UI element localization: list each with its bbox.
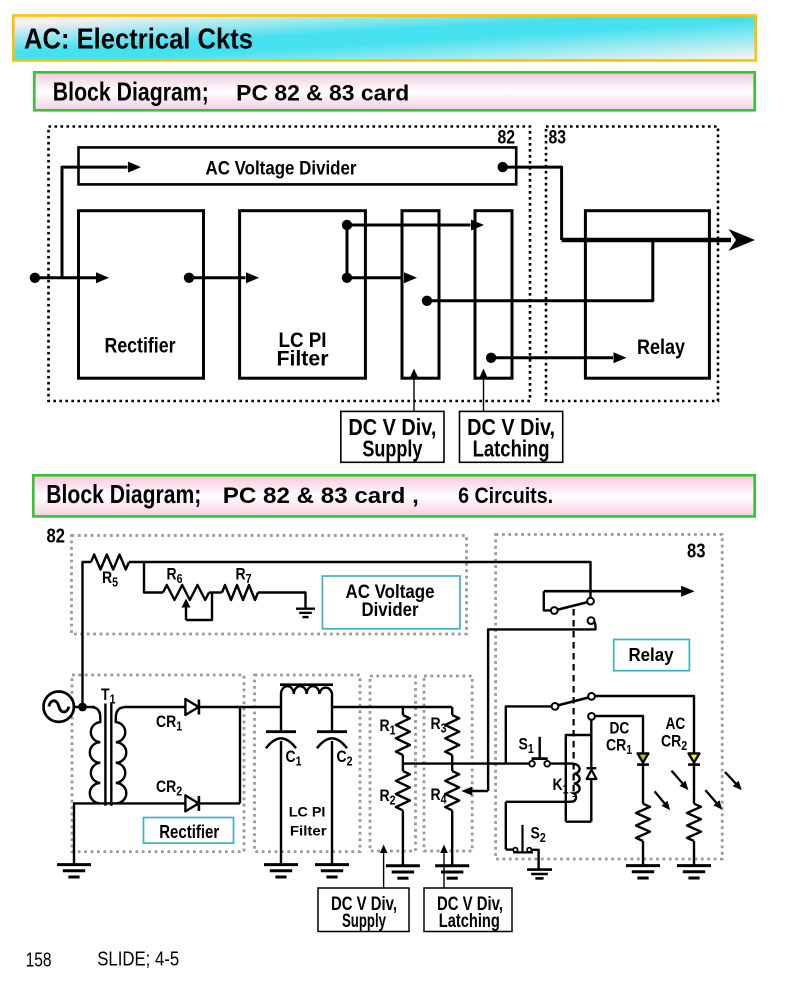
label box: DC V Div, Supply (schematic) (318, 888, 409, 932)
svg-text:Relay: Relay (637, 336, 685, 359)
svg-text:Filter: Filter (277, 348, 329, 371)
ground (S2) (527, 870, 552, 879)
ground (CR1) (626, 866, 660, 878)
dashed enclosure card 82 (49, 127, 531, 402)
capacitor C1 (280, 707, 282, 730)
wire: filter output to supply divider (347, 276, 404, 279)
wire: latching divider to Relay (486, 353, 496, 363)
resistor R3 (451, 707, 453, 715)
wire: input up to AC Voltage Divider (62, 167, 128, 278)
label 83 (549, 126, 567, 148)
wire: filter output to latching divider (347, 224, 471, 227)
callout arrow: DC V Div Supply (413, 376, 415, 411)
block: LC PI Filter (240, 211, 366, 379)
dashed box: LC PI filter section (255, 675, 361, 852)
label 83 (schematic) (687, 539, 705, 562)
svg-text:Supply: Supply (342, 911, 386, 932)
wire: latch common to S1 node (506, 706, 552, 763)
svg-text:PC 82 & 83 card ,: PC 82 & 83 card , (223, 483, 419, 508)
LED AC CR2 (689, 753, 700, 762)
block: DC V divider latching (narrow) (475, 211, 512, 379)
subtitle bar: Block Diagram; PC 82 &amp; 83 card, 6 Circuits (33, 475, 754, 516)
svg-text:PC 82 & 83 card: PC 82 & 83 card (236, 81, 409, 106)
callout arrow: DC V Div Latching (schematic) (443, 852, 445, 888)
callout box: Rectifier (144, 818, 234, 844)
transformer T1 primary (90, 707, 101, 803)
transformer core (104, 704, 106, 806)
wire: divider junction rail to S1 (403, 762, 529, 764)
resistor R4 (pot) (451, 764, 453, 771)
resistor (CR2 branch) (693, 765, 695, 804)
wire: latch contact to AC CR2 rail (595, 696, 694, 753)
svg-text:Filter: Filter (290, 822, 327, 838)
svg-text:83: 83 (549, 126, 567, 148)
wire: S1 to K1 coil (550, 762, 573, 764)
wire: transformer bottom rail (74, 803, 240, 864)
svg-text:158: 158 (26, 949, 52, 972)
label 82 (498, 126, 516, 148)
wire: latch contact to DC CR1 rail (595, 716, 643, 753)
label 82 (schematic) (47, 524, 65, 547)
flyback diode (K1) (590, 720, 592, 767)
dashed box: DC V Div latching section (424, 676, 472, 851)
callout arrow: DC V Div Supply (schematic) (383, 852, 385, 888)
svg-text:Latching: Latching (473, 436, 550, 462)
block: AC Voltage Divider (79, 147, 517, 184)
wire: S2 to ground (532, 850, 539, 870)
svg-text:6 Circuits.: 6 Circuits. (458, 483, 553, 508)
wire: source to transformer (74, 706, 95, 708)
dashed box: rectifier section (72, 675, 244, 852)
wire: contact to latching divider wiper (488, 622, 595, 791)
wire: rectifier output junction (239, 707, 241, 803)
dashed box: DC V Div supply section (370, 676, 416, 851)
latch contact to AC CR2 (588, 693, 595, 700)
ground (C1) (264, 865, 298, 877)
resistor R5 (91, 555, 129, 570)
svg-text:Latching: Latching (439, 911, 500, 932)
svg-text:Block Diagram;: Block Diagram; (46, 479, 201, 509)
relay lower throw contact (588, 617, 595, 624)
AC output arrow (544, 590, 681, 593)
resistor R6 (pot) (163, 585, 209, 600)
relay contact common (from AC rail) (587, 598, 594, 605)
svg-text:SLIDE; 4-5: SLIDE; 4-5 (97, 948, 179, 971)
transformer T1 secondary (116, 707, 127, 803)
svg-text:82: 82 (47, 524, 65, 547)
svg-text:82: 82 (498, 126, 516, 148)
ground (C2) (315, 865, 349, 877)
title bar: AC: Electrical Ckts (13, 16, 756, 61)
relay output stub (544, 591, 551, 610)
resistor (CR1 branch) (642, 765, 644, 804)
svg-text:Relay: Relay (629, 644, 675, 665)
capacitor C2 (331, 707, 333, 730)
AC source (44, 692, 74, 722)
ground (R2) (386, 866, 420, 878)
block: Rectifier (79, 211, 204, 379)
resistor R7 (222, 585, 258, 600)
wire: tap down to R6 (144, 562, 163, 593)
label box: DC V Div, Latching (schematic) (424, 888, 512, 932)
wire: filter output rail (332, 706, 452, 708)
switch S1 (529, 761, 535, 767)
svg-text:LC PI: LC PI (289, 804, 326, 820)
light arrows CR1 (672, 771, 684, 785)
svg-text:Supply: Supply (362, 436, 422, 462)
label box: DC V Div, Supply (341, 411, 444, 462)
svg-text:DC: DC (610, 719, 630, 737)
svg-text:AC: Electrical Ckts: AC: Electrical Ckts (24, 23, 253, 55)
dashed box: relay section 83 (496, 535, 723, 860)
latch contact common (552, 703, 559, 710)
latch blade (558, 698, 588, 706)
resistor R2 (402, 764, 404, 771)
wire: top rail to relay common (129, 562, 591, 597)
svg-text:Divider: Divider (362, 600, 420, 621)
wire: source riser to R5 (83, 562, 92, 707)
wire: Rectifier to LC PI Filter (184, 273, 194, 283)
callout arrow: DC V Div Latching (483, 376, 485, 411)
svg-text:AC: AC (666, 715, 686, 733)
block: Relay (585, 211, 709, 379)
wire: secondary top to CR1 (124, 706, 185, 708)
wire: LC PI Filter output junction (346, 225, 349, 278)
wire: supply divider to output bus (422, 296, 432, 306)
svg-text:Rectifier: Rectifier (105, 334, 176, 357)
subtitle bar: Block Diagram; PC 82 &amp; 83 card (34, 72, 754, 110)
dashed enclosure card 83 (546, 127, 718, 402)
light arrows CR2 (725, 772, 736, 784)
wire: R7 to ground (258, 593, 306, 609)
dashed box: AC voltage divider section (72, 536, 467, 635)
wire: R6 to R7 (209, 591, 222, 593)
ground (R4) (435, 866, 469, 878)
wire: coil return to S2 (505, 802, 507, 850)
diode CR1 (199, 706, 281, 708)
LED DC CR1 (638, 753, 649, 762)
block: DC V divider supply (narrow) (402, 211, 439, 379)
svg-text:Block Diagram;: Block Diagram; (53, 77, 209, 107)
switch S2 (506, 848, 513, 850)
ground (CR2) (677, 866, 711, 878)
relay blade (AC output) (558, 602, 587, 609)
ground (R7) (296, 609, 315, 617)
latch contact to DC CR1 (588, 713, 595, 720)
mechanical link (dashed) (572, 609, 574, 797)
ground (transformer) (57, 865, 91, 877)
svg-text:83: 83 (687, 539, 705, 562)
pot wiper of R6 (185, 606, 187, 621)
wire: main output arrow (562, 238, 731, 243)
node: junction at primary (78, 703, 87, 712)
diode CR2 (185, 795, 198, 811)
svg-text:AC Voltage Divider: AC Voltage Divider (206, 158, 357, 180)
callout box: Relay (614, 640, 690, 671)
inductor L (281, 686, 332, 707)
resistor R1 (402, 707, 404, 715)
wire: AC Voltage Divider output (498, 162, 508, 172)
relay coil K1 (566, 735, 592, 822)
wire: AC input to Rectifier (30, 273, 40, 283)
label box: DC V Div, Latching (460, 411, 563, 462)
svg-text:Rectifier: Rectifier (159, 822, 219, 842)
callout box: AC Voltage Divider (322, 576, 460, 629)
